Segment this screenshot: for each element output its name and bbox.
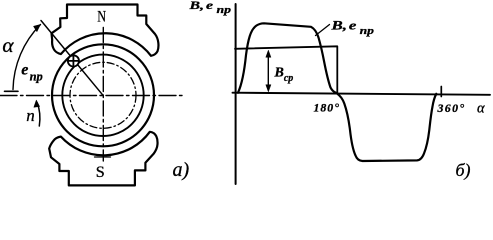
svg-text:S: S [96,163,105,181]
graph x-axis [233,93,491,95]
radius line through conductor [41,21,103,96]
center mark dash on vertical line [95,156,111,158]
rotor inner circle [62,55,143,136]
stator pole S (bottom) [49,132,157,186]
tick at 360 deg [440,87,442,97]
svg-text:n: n [26,106,35,125]
curve B trapezoid negative half [337,94,436,162]
svg-text:360°: 360° [437,101,466,115]
svg-text:α: α [477,101,485,117]
rotation arrow n [37,103,40,127]
svg-text:б): б) [456,160,471,181]
svg-text:180°: 180° [314,101,340,115]
graph y-axis [235,4,237,184]
leader line to B,e_pr label [316,25,330,36]
svg-text:а): а) [173,159,190,181]
vertical center line [102,28,104,162]
horizontal center line [0,95,185,97]
conductor with current into page [68,55,79,66]
B_sr double arrow [267,53,269,90]
stator pole N (top) [52,5,159,56]
svg-text:N: N [97,8,106,25]
dash-dot circle (winding pitch circle) [70,62,136,128]
angle arc alpha with arrowhead [13,25,41,90]
rotor outer circle [52,44,154,146]
B_sr rectangle (average emf) [235,46,337,93]
tick at arc base [5,90,19,92]
svg-text:α: α [2,35,14,57]
curve B trapezoid positive half [238,23,336,93]
